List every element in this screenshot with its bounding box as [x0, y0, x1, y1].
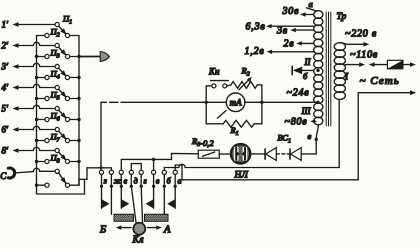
svg-text:~110в: ~110в	[350, 50, 378, 61]
svg-text:б: б	[303, 71, 308, 81]
wire lamp to diode	[250, 153, 265, 155]
svg-text:2в: 2в	[284, 38, 295, 49]
switch П2 arm and pivot	[59, 47, 66, 55]
wire left bracket	[205, 86, 207, 124]
switch П3 arm and pivot	[59, 68, 66, 76]
tap 30в	[304, 14, 314, 16]
arrow А	[148, 227, 157, 229]
svg-text:Б: Б	[99, 225, 106, 236]
svg-text:тА: тА	[230, 98, 242, 108]
switch П5 stub contact	[37, 98, 45, 100]
left bus wire	[36, 36, 38, 195]
wire R3 to lamp	[219, 153, 230, 155]
switch П6 stub contact	[37, 119, 45, 121]
switch П3 stub contact	[37, 56, 45, 58]
wire д-г bridge	[131, 164, 141, 171]
switch П5 arm and pivot	[59, 110, 66, 118]
svg-text:б: б	[167, 177, 172, 186]
svg-text:R3-0,2: R3-0,2	[191, 136, 214, 148]
terminal а	[173, 170, 177, 174]
thick output arrow	[79, 56, 100, 58]
diode ВС1 a	[264, 149, 266, 159]
svg-text:ВС1: ВС1	[278, 133, 291, 145]
svg-text:~80в: ~80в	[285, 117, 308, 128]
switch П7 arm and pivot	[59, 152, 66, 160]
probe on в	[153, 186, 155, 208]
svg-text:НЛ: НЛ	[234, 171, 249, 181]
wire diode to node в	[301, 139, 316, 154]
probe on а	[174, 186, 176, 208]
svg-text:ж: ж	[114, 177, 122, 186]
wire ж link	[101, 168, 111, 170]
svg-text:5': 5'	[2, 104, 10, 114]
terminal е	[119, 170, 123, 174]
tap 1,2в	[271, 51, 314, 53]
wire primary bottom riser	[338, 100, 340, 168]
svg-text:6,3в: 6,3в	[246, 21, 266, 32]
wire е riser and L1	[121, 153, 198, 170]
wire riser to terminal з	[100, 102, 102, 170]
tap 3в	[294, 29, 314, 31]
svg-text:1,2в: 1,2в	[245, 46, 265, 57]
terminal ж	[109, 170, 113, 174]
switch П2 stub contact	[37, 35, 45, 37]
tap б probe	[291, 66, 293, 74]
svg-text:30в: 30в	[282, 6, 300, 17]
wire primary tap 110в	[345, 64, 360, 66]
svg-text:R1: R1	[230, 125, 239, 137]
tap ~80в	[313, 120, 316, 122]
switch П6 arm and pivot	[59, 131, 66, 139]
wire в riser	[153, 159, 155, 170]
wire б post	[163, 186, 165, 214]
terminal в	[152, 170, 156, 174]
transformer primary winding I	[334, 43, 345, 51]
tap 6,3в	[270, 25, 314, 27]
switch П8 arm and pivot	[59, 173, 66, 184]
push-button Кн	[206, 85, 212, 87]
svg-text:~24в: ~24в	[287, 88, 310, 99]
node в	[316, 125, 318, 139]
svg-text:~220 в: ~220 в	[345, 29, 377, 40]
svg-text:R2: R2	[241, 66, 250, 78]
arrow Б	[116, 225, 122, 229]
key Кл knob	[131, 186, 136, 224]
key base right	[145, 214, 169, 221]
probe on е	[120, 186, 122, 208]
wire mid horizontal to meter branch	[101, 101, 206, 103]
svg-text:Кн: Кн	[208, 67, 220, 77]
svg-text:II: II	[304, 57, 312, 67]
svg-text:С: С	[0, 171, 7, 181]
svg-text:д: д	[134, 177, 138, 186]
switch П4 stub contact	[37, 77, 45, 79]
svg-text:4': 4'	[2, 83, 10, 93]
svg-text:А: А	[163, 225, 171, 236]
switch П7 stub contact	[37, 140, 45, 142]
terminal г	[139, 170, 143, 174]
svg-text:6': 6'	[2, 125, 10, 135]
svg-text:П2: П2	[50, 27, 60, 39]
svg-text:П3: П3	[50, 48, 60, 60]
tap 2в	[300, 42, 314, 44]
wire right bracket	[261, 85, 263, 124]
core	[325, 12, 327, 126]
svg-text:П4: П4	[50, 69, 60, 81]
probe on з	[101, 186, 103, 208]
wire winding top to tap а	[307, 8, 317, 11]
svg-text:П8: П8	[50, 153, 60, 165]
svg-text:П7: П7	[50, 132, 61, 144]
wire dashed link	[276, 153, 290, 155]
svg-text:П6: П6	[50, 111, 60, 123]
svg-text:2': 2'	[2, 41, 10, 51]
svg-text:П1: П1	[62, 14, 72, 26]
switch П4 arm and pivot	[59, 89, 66, 97]
switch П C-row stub contact	[37, 184, 45, 186]
svg-text:г: г	[144, 177, 147, 186]
right bus wire	[78, 36, 80, 186]
key base left	[114, 214, 134, 221]
transformer Тр secondary winding	[314, 11, 323, 19]
terminal б	[162, 170, 166, 174]
svg-text:Кл: Кл	[132, 235, 145, 246]
diode ВС1 b	[289, 149, 291, 159]
svg-text:в: в	[156, 177, 160, 186]
switch П1 arm and pivot	[59, 26, 66, 34]
lamp НЛ	[231, 144, 250, 163]
svg-text:3в: 3в	[276, 25, 288, 36]
svg-text:П5: П5	[50, 90, 60, 102]
meter mA	[206, 101, 226, 103]
terminal д	[129, 170, 133, 174]
switch П8 stub contact	[37, 161, 45, 163]
wire а bus to mains	[175, 165, 358, 180]
svg-text:в: в	[308, 131, 312, 141]
svg-text:з: з	[103, 177, 107, 186]
svg-text:III: III	[301, 106, 312, 116]
resistor R3 box	[198, 150, 219, 158]
svg-text:~ Сеть: ~ Сеть	[360, 75, 400, 87]
wire block bottom to node з	[79, 168, 101, 185]
terminal з	[99, 170, 103, 174]
svg-text:8': 8'	[2, 146, 10, 156]
svg-text:а: а	[309, 0, 313, 9]
wire б bus to primary	[164, 164, 339, 170]
wire mains output	[358, 92, 410, 94]
wire branch to transformer tap 24в	[262, 101, 318, 103]
wire primary top to 220в arrow	[340, 43, 364, 45]
svg-text:а: а	[178, 177, 182, 186]
svg-text:1': 1'	[2, 20, 10, 30]
svg-text:3': 3'	[1, 62, 10, 72]
svg-text:е: е	[124, 177, 128, 186]
plug connector	[369, 62, 375, 67]
resistor R2	[227, 85, 231, 86]
resistor R1	[206, 123, 223, 125]
wire ж post	[110, 186, 112, 214]
svg-text:I: I	[344, 72, 349, 82]
svg-text:Тр: Тр	[337, 12, 347, 22]
